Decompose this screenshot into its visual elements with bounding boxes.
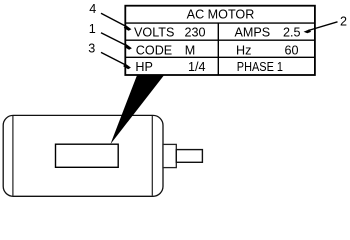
motor body [3, 115, 163, 196]
motor right end-cap seam [151, 116, 153, 196]
shaft [176, 150, 202, 163]
svg-text:AMPS: AMPS [235, 25, 271, 39]
svg-text:HP: HP [135, 60, 153, 74]
table row divider 3 [125, 56, 315, 58]
svg-text:1/4: 1/4 [188, 60, 206, 74]
nameplate table outer border [125, 6, 315, 75]
leader arrow from 3 to HP row [101, 52, 131, 69]
svg-text:3: 3 [88, 42, 95, 56]
leader arrow from 4 to VOLTS row [101, 13, 131, 31]
nameplate on motor [56, 144, 119, 167]
svg-text:4: 4 [89, 2, 96, 16]
leader arrow from 2 to AMPS value [304, 22, 338, 33]
svg-text:2.5: 2.5 [283, 25, 301, 39]
shaft hub [163, 144, 176, 167]
svg-text:AC MOTOR: AC MOTOR [187, 8, 255, 22]
svg-text:CODE: CODE [136, 43, 172, 57]
svg-text:230: 230 [185, 25, 206, 39]
svg-text:M: M [185, 43, 196, 57]
svg-text:Hz: Hz [236, 43, 251, 57]
leader arrow from 1 to CODE row [101, 33, 132, 50]
motor left end-cap seam [12, 116, 14, 196]
svg-text:60: 60 [285, 43, 299, 57]
svg-text:PHASE 1: PHASE 1 [237, 60, 283, 74]
table row divider 1 [125, 22, 315, 24]
table row divider 2 [125, 39, 315, 41]
svg-text:2: 2 [340, 15, 347, 29]
svg-text:VOLTS: VOLTS [134, 25, 174, 39]
callout wedge from table to nameplate [110, 75, 164, 144]
svg-text:1: 1 [89, 22, 96, 36]
table column divider [217, 23, 219, 75]
